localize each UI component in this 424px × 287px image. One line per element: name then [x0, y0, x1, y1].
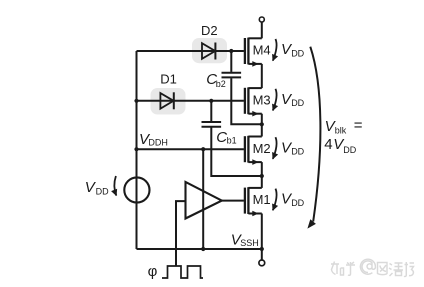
wire buffer supply: [202, 149, 204, 249]
voltage source VDD: [124, 177, 149, 202]
wire VDDH row: [137, 148, 244, 150]
svg-text:φ: φ: [148, 263, 158, 280]
wire Cb2 branch: [230, 51, 232, 72]
svg-text:blk: blk: [335, 125, 347, 135]
svg-text:b2: b2: [216, 79, 226, 89]
wire stack rail n1: [261, 162, 263, 188]
label VDD M2: [281, 139, 305, 156]
transistor M1: [245, 187, 271, 216]
label Cb2: [206, 71, 226, 89]
wire M1 source to VSSH: [261, 214, 263, 260]
wire D2 row: [137, 50, 244, 52]
arrow Vblk total: [310, 47, 320, 222]
arrow VDD across M3: [273, 89, 277, 111]
arrow VDD across M1: [273, 189, 277, 211]
wire stack rail: [261, 64, 263, 88]
wire top terminal stem: [261, 22, 263, 38]
svg-text:DD: DD: [291, 98, 304, 108]
svg-text:D2: D2: [201, 23, 218, 38]
wire buffer output: [222, 200, 244, 202]
wire D1 row: [137, 100, 244, 102]
label VDD M4: [281, 41, 305, 58]
capacitor Cb1: [202, 122, 222, 127]
watermark zhihu: [331, 259, 414, 276]
svg-text:DD: DD: [291, 48, 304, 58]
svg-text:DDH: DDH: [148, 138, 168, 148]
wire buffer input: [176, 201, 186, 266]
svg-text:M3: M3: [253, 92, 271, 107]
op-amp buffer U1: [186, 182, 222, 219]
terminal VSSH: [259, 260, 265, 266]
svg-text:M4: M4: [253, 43, 271, 58]
highlight box D2: [192, 38, 227, 63]
transistor M2: [245, 136, 271, 165]
svg-text:DD: DD: [291, 147, 304, 157]
svg-text:DD: DD: [343, 145, 356, 155]
label VSSH: [231, 231, 259, 248]
label VDD M1: [281, 191, 305, 208]
terminal top output: [259, 17, 264, 22]
svg-text:4: 4: [324, 136, 332, 153]
label Cb1: [216, 129, 236, 146]
svg-text:D1: D1: [160, 72, 177, 87]
highlight box D1: [151, 88, 186, 115]
wire left rail: [136, 51, 138, 249]
diode D2: [202, 43, 215, 60]
label VDD M3: [281, 91, 305, 108]
capacitor Cb2: [222, 73, 242, 78]
node junction dots: [134, 99, 138, 103]
svg-text:DD: DD: [96, 187, 109, 197]
label Vblk: [324, 117, 363, 155]
svg-text:=: =: [354, 117, 363, 134]
svg-text:DD: DD: [291, 198, 304, 208]
arrow VDD source polarity: [114, 176, 116, 196]
arrow VDD across M2: [273, 137, 277, 159]
svg-text:M1: M1: [253, 192, 271, 207]
svg-text:b1: b1: [227, 136, 237, 146]
wire Cb1 branch: [210, 101, 212, 121]
label VDD source: [85, 179, 109, 197]
wire Cb1 bottom to node n1: [211, 128, 261, 177]
svg-text:SSH: SSH: [240, 238, 259, 248]
wire bottom rail VSSH: [137, 248, 262, 250]
clock square wave: [162, 266, 203, 278]
arrow VDD across M4: [273, 39, 277, 61]
wire stack rail n2: [261, 114, 263, 137]
diode D1: [160, 92, 173, 109]
wire Cb2 bottom to node n2: [231, 78, 261, 124]
transistor M4: [245, 38, 271, 67]
svg-text:M2: M2: [253, 141, 271, 156]
label VDDH: [139, 131, 168, 148]
transistor M3: [245, 87, 271, 116]
